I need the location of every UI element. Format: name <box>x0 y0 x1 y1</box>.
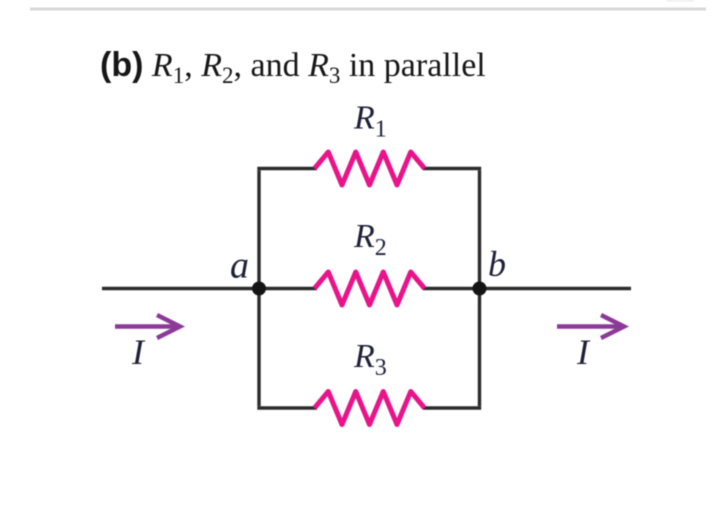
wire: left lead <box>102 287 259 290</box>
wire: node a to R2 <box>259 287 317 290</box>
resistor R2 <box>315 272 425 305</box>
svg-text:R2: R2 <box>353 218 387 261</box>
wire: right vertical bus <box>478 170 481 406</box>
svg-text:b: b <box>488 244 506 284</box>
svg-text:(b) R1, R2, and R3 in parallel: (b) R1, R2, and R3 in parallel <box>100 46 486 88</box>
resistor R1 <box>315 152 425 185</box>
wire: bottom branch right segment <box>423 406 481 409</box>
wire: top branch left segment <box>257 167 317 170</box>
node b <box>473 282 487 296</box>
wire: left vertical bus <box>257 170 260 406</box>
wire: bottom branch left segment <box>257 406 317 409</box>
svg-text:R1: R1 <box>353 100 387 143</box>
top-right faint mark <box>667 0 694 2</box>
top rule <box>30 8 706 11</box>
wire: top branch right segment <box>423 167 481 170</box>
wire: R2 to node b <box>423 287 480 290</box>
resistor R3 <box>315 392 425 425</box>
arrow: right current arrow <box>557 315 624 338</box>
svg-text:a: a <box>230 245 249 287</box>
svg-text:I: I <box>131 332 146 372</box>
arrow: left current arrow <box>115 315 180 338</box>
svg-text:I: I <box>576 332 591 372</box>
wire: right lead <box>480 287 632 290</box>
node a <box>252 282 266 296</box>
svg-text:R3: R3 <box>353 338 387 381</box>
